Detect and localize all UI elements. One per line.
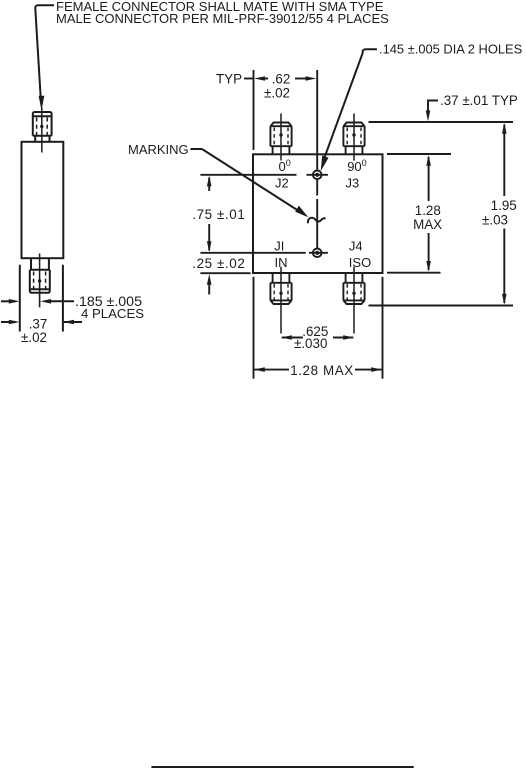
svg-text:4 PLACES: 4 PLACES <box>81 306 144 321</box>
svg-text:±.03: ±.03 <box>482 212 508 227</box>
svg-text:±.030: ±.030 <box>294 336 327 351</box>
svg-text:.37 ±.01 TYP: .37 ±.01 TYP <box>440 93 518 108</box>
svg-text:J4: J4 <box>349 238 363 253</box>
svg-text:1.28: 1.28 <box>415 203 441 218</box>
svg-text:00: 00 <box>279 158 291 174</box>
svg-text:1.95: 1.95 <box>491 198 517 213</box>
svg-text:±.02: ±.02 <box>264 86 290 101</box>
svg-text:.25 ±.02: .25 ±.02 <box>192 256 245 271</box>
svg-text:TYP: TYP <box>216 72 242 87</box>
svg-text:MAX: MAX <box>413 217 442 232</box>
svg-text:J2: J2 <box>275 175 289 190</box>
svg-text:±.02: ±.02 <box>21 330 47 345</box>
svg-text:.62: .62 <box>272 72 291 87</box>
svg-text:MARKING: MARKING <box>128 142 189 157</box>
svg-text:1.28 MAX: 1.28 MAX <box>290 363 354 378</box>
svg-text:.145 ±.005 DIA 2 HOLES: .145 ±.005 DIA 2 HOLES <box>379 42 522 57</box>
svg-text:J3: J3 <box>346 175 360 190</box>
svg-text:JI: JI <box>274 238 284 253</box>
svg-text:MALE CONNECTOR PER MIL-PRF-390: MALE CONNECTOR PER MIL-PRF-39012/55 4 PL… <box>56 11 389 26</box>
svg-text:ISO: ISO <box>349 255 371 270</box>
svg-text:900: 900 <box>347 158 366 174</box>
svg-text:IN: IN <box>275 255 288 270</box>
svg-text:.75 ±.01: .75 ±.01 <box>192 207 245 222</box>
